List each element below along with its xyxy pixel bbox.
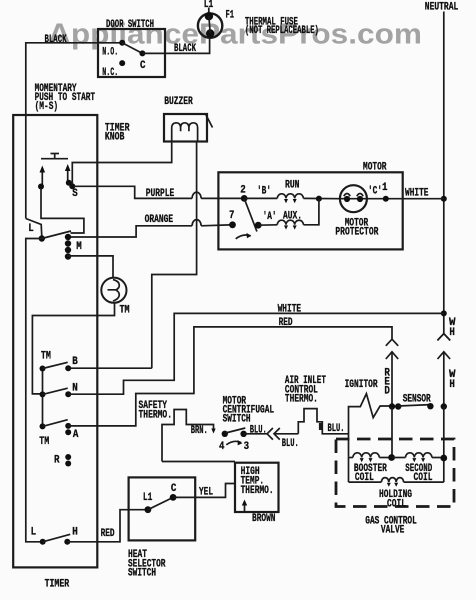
svg-text:WHITE: WHITE xyxy=(278,304,302,316)
node wh/second xyxy=(440,455,447,462)
motor protector xyxy=(335,185,378,238)
junction neutral/motor white xyxy=(441,196,447,202)
thermal fuse F1 xyxy=(198,0,234,38)
label ORANGE xyxy=(145,214,174,226)
centrifugal action arc motor xyxy=(236,233,252,239)
door switch C contact xyxy=(139,50,145,72)
node N xyxy=(65,382,78,397)
node bus N xyxy=(40,391,46,397)
svg-text:1: 1 xyxy=(382,182,388,194)
svg-text:BLU.: BLU. xyxy=(282,438,299,450)
motor centrifugal switch xyxy=(219,396,274,453)
svg-text:C: C xyxy=(140,60,146,72)
wire door switch to thermal fuse xyxy=(142,38,209,54)
node left arrow xyxy=(38,184,44,190)
svg-text:BRN.: BRN. xyxy=(191,425,208,437)
node S xyxy=(66,180,78,200)
ignitor xyxy=(345,379,390,456)
node run/aux junction xyxy=(316,196,322,202)
blade motor 2 to A xyxy=(244,198,257,231)
svg-text:SWITCH: SWITCH xyxy=(128,568,156,580)
svg-text:(NOT REPLACEABLE): (NOT REPLACEABLE) xyxy=(245,25,319,37)
node M contacts xyxy=(65,234,82,260)
door switch N.O. contact xyxy=(102,40,125,59)
label gas control valve xyxy=(365,515,417,536)
svg-text:L: L xyxy=(31,526,37,538)
air inlet control thermo xyxy=(285,375,349,434)
svg-text:TIMER: TIMER xyxy=(45,578,70,590)
svg-text:KNOB: KNOB xyxy=(105,132,125,144)
node bus B xyxy=(40,366,46,372)
svg-text:PROTECTOR: PROTECTOR xyxy=(335,227,378,239)
label BLU. right xyxy=(328,423,345,435)
label NEUTRAL xyxy=(425,1,459,13)
label BLACK left xyxy=(45,34,67,46)
label momentary push to start xyxy=(35,83,96,113)
timer bus B-N-A xyxy=(42,369,44,427)
svg-text:H: H xyxy=(449,327,455,339)
label TM lower xyxy=(39,436,49,448)
label RED vertical xyxy=(384,367,390,397)
svg-text:WHITE: WHITE xyxy=(405,188,429,200)
door switch box xyxy=(98,19,165,77)
node L xyxy=(28,223,45,242)
wire red to booster junction xyxy=(391,407,393,458)
svg-text:S: S xyxy=(72,188,78,200)
svg-text:2: 2 xyxy=(240,185,246,197)
wire safety thermo to high temp xyxy=(162,461,235,463)
svg-text:IGNITOR: IGNITOR xyxy=(345,379,378,391)
svg-text:4: 4 xyxy=(219,441,225,453)
svg-text:RED: RED xyxy=(101,528,115,540)
svg-text:ORANGE: ORANGE xyxy=(145,214,174,226)
blade B xyxy=(43,362,68,368)
label BROWN xyxy=(252,513,276,525)
label TM upper xyxy=(41,351,51,363)
wire B to buzzer leg xyxy=(68,367,152,369)
label BLU. left xyxy=(250,424,267,436)
svg-text:N.O.: N.O. xyxy=(102,47,118,59)
label WHITE xyxy=(278,304,302,316)
wire H red to heat selector xyxy=(67,510,148,542)
svg-text:COIL: COIL xyxy=(387,498,406,510)
booster coil xyxy=(349,453,392,484)
contact arrow left xyxy=(40,166,46,186)
second coil xyxy=(392,453,444,484)
svg-text:L: L xyxy=(28,223,34,235)
svg-text:VALVE: VALVE xyxy=(381,525,405,537)
blade N xyxy=(43,388,68,394)
wire motor white xyxy=(367,196,444,202)
svg-text:M: M xyxy=(76,241,82,253)
label 'C' 1 xyxy=(368,182,388,197)
gas valve coil box xyxy=(349,456,444,482)
blade L1 to C xyxy=(148,497,173,509)
junction neutral/timer white xyxy=(441,310,447,316)
node H xyxy=(64,526,78,544)
node L heat row xyxy=(31,526,46,544)
label WHITE motor xyxy=(405,188,429,200)
svg-text:'C': 'C' xyxy=(368,185,382,197)
node motor 2 xyxy=(240,185,247,202)
neutral connector fork xyxy=(437,334,450,341)
wire buzzer right leg to B xyxy=(152,142,197,369)
svg-text:'B': 'B' xyxy=(257,186,271,198)
door switch blade xyxy=(122,43,142,54)
wire L1 black to door switch xyxy=(26,43,122,219)
node motor A xyxy=(255,222,262,229)
label W H upper xyxy=(449,317,456,339)
safety thermo symbol xyxy=(139,400,216,461)
label RED bottom xyxy=(101,528,115,540)
node B xyxy=(65,356,78,371)
wire wh to second junction xyxy=(443,407,445,459)
wh connector arrow xyxy=(438,352,451,407)
neutral wire xyxy=(443,12,445,334)
svg-text:MOTOR: MOTOR xyxy=(363,162,387,174)
holding coil xyxy=(349,478,444,511)
svg-text:BLU.: BLU. xyxy=(250,424,267,436)
wire yel to high temp xyxy=(173,484,235,498)
node R contacts xyxy=(54,454,71,467)
svg-text:(M-S): (M-S) xyxy=(35,101,59,113)
watermark AppliancePartsPros.com xyxy=(48,19,422,51)
wire centrifugal to connector xyxy=(244,433,268,435)
wire arrows to M blade xyxy=(41,188,84,233)
svg-text:D: D xyxy=(384,385,390,397)
node L1 xyxy=(143,492,153,513)
svg-text:R: R xyxy=(54,455,60,467)
wire N to white xyxy=(68,313,444,394)
svg-text:NEUTRAL: NEUTRAL xyxy=(425,1,459,13)
svg-text:RED: RED xyxy=(279,317,293,329)
wire purple xyxy=(74,186,241,198)
label PURPLE xyxy=(146,188,175,200)
label 'B' xyxy=(257,186,271,198)
svg-text:DOOR SWITCH: DOOR SWITCH xyxy=(106,19,154,31)
label 'A' xyxy=(263,211,277,223)
wire orange xyxy=(68,220,230,237)
motor box xyxy=(218,162,402,250)
wh connector fork upper xyxy=(438,334,451,341)
red connector arrow xyxy=(386,352,398,407)
svg-text:THERMO.: THERMO. xyxy=(241,485,274,497)
svg-text:B: B xyxy=(72,356,78,368)
wire timer motor to N bus xyxy=(32,303,114,394)
svg-text:TM: TM xyxy=(41,351,51,363)
label BLU. mid xyxy=(282,438,299,450)
svg-text:PURPLE: PURPLE xyxy=(146,188,175,200)
heat selector switch box xyxy=(128,477,195,579)
svg-text:TM: TM xyxy=(39,436,49,448)
label thermal fuse xyxy=(245,16,319,37)
svg-text:L1: L1 xyxy=(143,492,153,504)
svg-text:N: N xyxy=(72,382,78,394)
node bus A xyxy=(40,423,46,429)
node red/booster xyxy=(388,454,395,461)
svg-text:TM: TM xyxy=(120,305,130,317)
svg-text:BUZZER: BUZZER xyxy=(164,96,193,108)
svg-text:7: 7 xyxy=(229,210,235,222)
svg-text:A: A xyxy=(73,429,79,441)
svg-text:3: 3 xyxy=(244,441,250,453)
run winding xyxy=(244,179,340,203)
svg-text:F1: F1 xyxy=(226,9,235,21)
label RED top xyxy=(279,317,293,329)
aux winding xyxy=(258,199,319,230)
node C heat xyxy=(170,483,177,501)
svg-text:RUN: RUN xyxy=(285,179,300,191)
svg-text:BLACK: BLACK xyxy=(174,43,196,55)
node motor 7 xyxy=(229,210,236,228)
blade A xyxy=(43,420,68,427)
label YEL xyxy=(199,487,213,499)
wire S to buzzer xyxy=(72,142,171,185)
label timer knob xyxy=(105,123,130,144)
wire bus to L pivot xyxy=(26,219,42,238)
svg-text:BLU.: BLU. xyxy=(328,423,345,435)
node A xyxy=(65,423,79,441)
push-to-start button symbol xyxy=(41,154,68,159)
sensor xyxy=(389,393,447,409)
high temp thermo box xyxy=(235,463,279,512)
contact arrow right xyxy=(65,164,71,181)
label BLACK right xyxy=(174,43,196,55)
wire M to timer motor xyxy=(68,256,113,278)
svg-text:H: H xyxy=(72,526,78,538)
label W H lower xyxy=(449,369,456,391)
buzzer xyxy=(164,96,213,141)
svg-text:SWITCH: SWITCH xyxy=(223,414,251,426)
connector blu fork xyxy=(267,428,273,440)
svg-text:C: C xyxy=(171,483,177,495)
gas control valve dashed box xyxy=(336,439,454,507)
svg-text:SENSOR: SENSOR xyxy=(403,393,431,405)
svg-text:BLACK: BLACK xyxy=(45,34,67,46)
label BRN. xyxy=(191,425,208,437)
wire bus lower xyxy=(26,239,43,542)
svg-text:'A': 'A' xyxy=(263,211,277,223)
svg-text:YEL: YEL xyxy=(199,487,213,499)
wire A to red xyxy=(68,327,392,426)
svg-text:N.C.: N.C. xyxy=(102,67,118,79)
svg-text:THERMO.: THERMO. xyxy=(285,394,318,406)
red connector fork xyxy=(386,339,398,346)
timer box xyxy=(13,115,97,590)
blade L to M xyxy=(42,231,71,239)
door switch N.C. contact xyxy=(102,60,125,79)
svg-text:H: H xyxy=(449,379,455,391)
svg-text:BROWN: BROWN xyxy=(252,513,276,525)
connector blu arrow xyxy=(274,428,298,440)
blade L-H xyxy=(43,534,70,542)
svg-text:THERMO.: THERMO. xyxy=(139,409,173,421)
timer motor TM xyxy=(101,278,130,317)
